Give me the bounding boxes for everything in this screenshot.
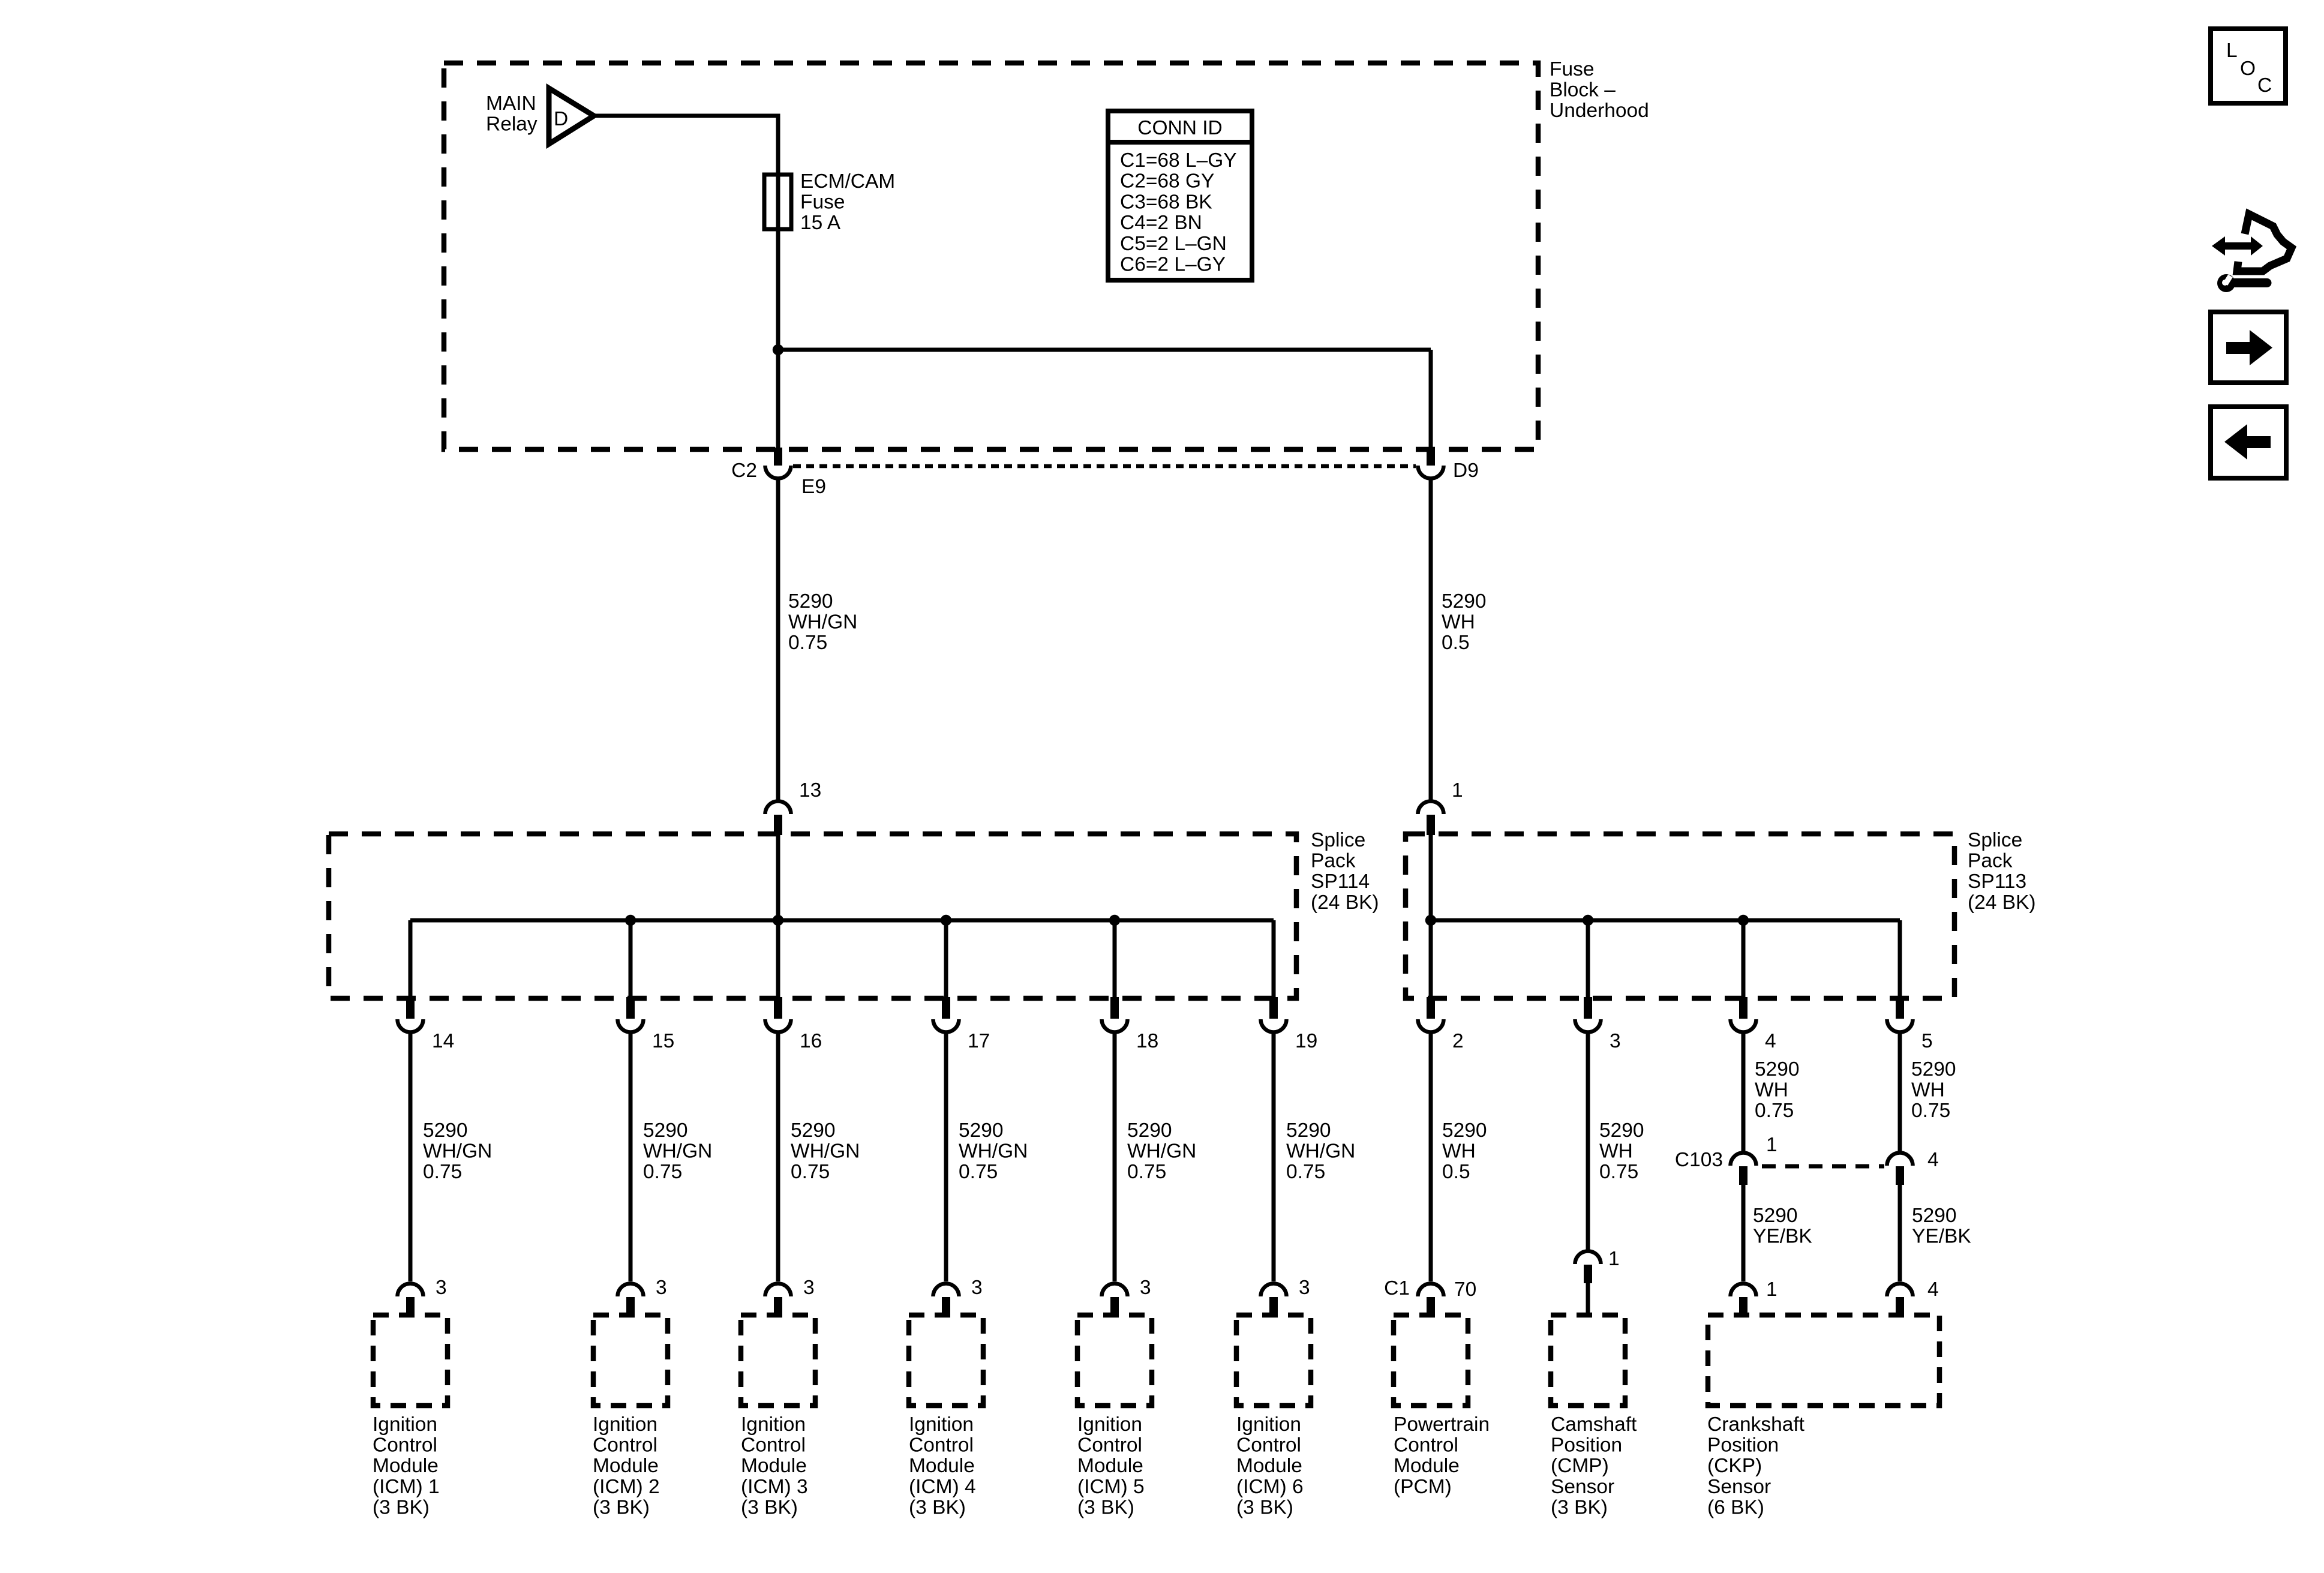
svg-text:Powertrain: Powertrain bbox=[1394, 1413, 1490, 1436]
svg-text:Module: Module bbox=[1394, 1455, 1460, 1477]
svg-text:1: 1 bbox=[1766, 1134, 1777, 1156]
svg-text:WH: WH bbox=[1599, 1140, 1633, 1163]
svg-text:2: 2 bbox=[1452, 1030, 1464, 1052]
svg-text:Module: Module bbox=[593, 1455, 659, 1477]
svg-text:1: 1 bbox=[1608, 1248, 1620, 1270]
svg-text:WH/GN: WH/GN bbox=[959, 1140, 1028, 1163]
svg-text:(ICM) 3: (ICM) 3 bbox=[741, 1476, 808, 1498]
svg-text:Crankshaft: Crankshaft bbox=[1707, 1413, 1805, 1436]
svg-text:(3 BK): (3 BK) bbox=[1077, 1496, 1134, 1518]
svg-text:16: 16 bbox=[800, 1030, 822, 1052]
svg-text:Splice: Splice bbox=[1311, 829, 1365, 851]
svg-text:(24 BK): (24 BK) bbox=[1968, 891, 2036, 914]
svg-text:5290: 5290 bbox=[791, 1119, 836, 1142]
svg-text:Position: Position bbox=[1551, 1434, 1622, 1457]
svg-text:13: 13 bbox=[799, 779, 821, 801]
svg-text:(ICM) 6: (ICM) 6 bbox=[1236, 1476, 1304, 1498]
svg-text:Fuse: Fuse bbox=[800, 191, 845, 214]
svg-text:(3 BK): (3 BK) bbox=[909, 1496, 966, 1518]
svg-text:WH/GN: WH/GN bbox=[1286, 1140, 1355, 1163]
svg-text:Control: Control bbox=[373, 1434, 437, 1457]
svg-text:3: 3 bbox=[803, 1277, 815, 1299]
svg-text:3: 3 bbox=[1140, 1277, 1151, 1299]
svg-text:5290: 5290 bbox=[643, 1119, 688, 1142]
svg-text:5290: 5290 bbox=[1753, 1205, 1798, 1227]
svg-text:(CKP): (CKP) bbox=[1707, 1455, 1762, 1477]
svg-text:14: 14 bbox=[432, 1030, 454, 1052]
svg-text:15: 15 bbox=[652, 1030, 674, 1052]
svg-text:L: L bbox=[2226, 40, 2238, 62]
svg-text:Relay: Relay bbox=[486, 113, 538, 136]
svg-text:(3 BK): (3 BK) bbox=[741, 1496, 798, 1518]
svg-text:5290: 5290 bbox=[423, 1119, 468, 1142]
svg-text:Underhood: Underhood bbox=[1550, 100, 1649, 122]
svg-text:C5=2 L–GN: C5=2 L–GN bbox=[1120, 233, 1227, 255]
svg-text:5290: 5290 bbox=[1599, 1119, 1644, 1142]
svg-text:SP114: SP114 bbox=[1311, 870, 1370, 893]
svg-text:(ICM) 4: (ICM) 4 bbox=[909, 1476, 976, 1498]
svg-text:0.75: 0.75 bbox=[1599, 1161, 1638, 1183]
svg-text:C3=68 BK: C3=68 BK bbox=[1120, 191, 1212, 213]
svg-text:Module: Module bbox=[741, 1455, 807, 1477]
svg-text:C103: C103 bbox=[1675, 1149, 1723, 1171]
svg-text:5290: 5290 bbox=[1127, 1119, 1172, 1142]
svg-text:ECM/CAM: ECM/CAM bbox=[800, 170, 895, 193]
svg-text:4: 4 bbox=[1927, 1149, 1939, 1171]
svg-text:0.75: 0.75 bbox=[791, 1161, 830, 1183]
svg-text:WH: WH bbox=[1442, 611, 1475, 634]
svg-text:Control: Control bbox=[1236, 1434, 1301, 1457]
svg-text:3: 3 bbox=[436, 1277, 447, 1299]
svg-text:5: 5 bbox=[1921, 1030, 1933, 1052]
svg-text:C2=68 GY: C2=68 GY bbox=[1120, 170, 1214, 193]
svg-text:3: 3 bbox=[1299, 1277, 1310, 1299]
svg-text:5290: 5290 bbox=[1442, 1119, 1487, 1142]
svg-text:(3 BK): (3 BK) bbox=[1236, 1496, 1293, 1518]
svg-text:(ICM) 5: (ICM) 5 bbox=[1077, 1476, 1145, 1498]
svg-text:(PCM): (PCM) bbox=[1394, 1476, 1452, 1498]
svg-text:MAIN: MAIN bbox=[486, 92, 536, 115]
svg-text:(3 BK): (3 BK) bbox=[1551, 1496, 1608, 1518]
svg-text:SP113: SP113 bbox=[1968, 870, 2026, 893]
svg-text:Sensor: Sensor bbox=[1707, 1476, 1771, 1498]
svg-text:WH/GN: WH/GN bbox=[791, 1140, 860, 1163]
svg-text:D9: D9 bbox=[1453, 460, 1479, 482]
svg-text:17: 17 bbox=[968, 1030, 990, 1052]
svg-text:Fuse: Fuse bbox=[1550, 58, 1594, 80]
svg-text:3: 3 bbox=[1610, 1030, 1621, 1052]
svg-text:19: 19 bbox=[1295, 1030, 1317, 1052]
svg-text:0.75: 0.75 bbox=[1127, 1161, 1166, 1183]
svg-text:WH: WH bbox=[1442, 1140, 1476, 1163]
svg-text:Ignition: Ignition bbox=[741, 1413, 806, 1436]
svg-text:5290: 5290 bbox=[1286, 1119, 1331, 1142]
svg-text:Pack: Pack bbox=[1968, 850, 2013, 872]
svg-text:(3 BK): (3 BK) bbox=[593, 1496, 650, 1518]
svg-text:WH/GN: WH/GN bbox=[643, 1140, 712, 1163]
svg-text:Control: Control bbox=[909, 1434, 974, 1457]
svg-text:C1: C1 bbox=[1384, 1277, 1410, 1299]
svg-text:Module: Module bbox=[909, 1455, 975, 1477]
svg-text:3: 3 bbox=[656, 1277, 667, 1299]
svg-text:YE/BK: YE/BK bbox=[1912, 1226, 1971, 1248]
svg-text:Control: Control bbox=[741, 1434, 806, 1457]
svg-text:(CMP): (CMP) bbox=[1551, 1455, 1609, 1477]
svg-text:WH/GN: WH/GN bbox=[423, 1140, 492, 1163]
svg-text:(6 BK): (6 BK) bbox=[1707, 1496, 1764, 1518]
svg-text:0.75: 0.75 bbox=[1911, 1100, 1950, 1122]
svg-text:Control: Control bbox=[593, 1434, 657, 1457]
svg-text:(ICM) 1: (ICM) 1 bbox=[373, 1476, 440, 1498]
svg-text:WH: WH bbox=[1755, 1079, 1788, 1101]
svg-text:5290: 5290 bbox=[959, 1119, 1004, 1142]
svg-text:Ignition: Ignition bbox=[909, 1413, 974, 1436]
svg-text:3: 3 bbox=[971, 1277, 983, 1299]
svg-text:WH/GN: WH/GN bbox=[788, 611, 857, 634]
svg-text:0.5: 0.5 bbox=[1442, 632, 1470, 654]
svg-text:C4=2 BN: C4=2 BN bbox=[1120, 212, 1202, 234]
svg-text:5290: 5290 bbox=[1755, 1058, 1800, 1080]
svg-text:Control: Control bbox=[1077, 1434, 1142, 1457]
svg-text:C1=68 L–GY: C1=68 L–GY bbox=[1120, 149, 1237, 172]
svg-text:Module: Module bbox=[1077, 1455, 1143, 1477]
svg-text:Module: Module bbox=[373, 1455, 439, 1477]
svg-text:Sensor: Sensor bbox=[1551, 1476, 1614, 1498]
svg-text:0.75: 0.75 bbox=[643, 1161, 682, 1183]
svg-text:Position: Position bbox=[1707, 1434, 1779, 1457]
svg-text:C6=2 L–GY: C6=2 L–GY bbox=[1120, 254, 1226, 276]
svg-text:Ignition: Ignition bbox=[1077, 1413, 1142, 1436]
svg-text:4: 4 bbox=[1927, 1278, 1939, 1301]
svg-text:D: D bbox=[554, 108, 568, 130]
svg-text:WH: WH bbox=[1911, 1079, 1945, 1101]
svg-text:Splice: Splice bbox=[1968, 829, 2022, 851]
svg-text:Block –: Block – bbox=[1550, 79, 1616, 101]
svg-text:C2: C2 bbox=[731, 460, 757, 482]
svg-text:70: 70 bbox=[1454, 1278, 1476, 1301]
svg-text:WH/GN: WH/GN bbox=[1127, 1140, 1196, 1163]
svg-text:0.5: 0.5 bbox=[1442, 1161, 1470, 1183]
svg-text:0.75: 0.75 bbox=[1286, 1161, 1325, 1183]
svg-text:0.75: 0.75 bbox=[959, 1161, 998, 1183]
svg-text:E9: E9 bbox=[801, 476, 826, 498]
svg-text:(3 BK): (3 BK) bbox=[373, 1496, 430, 1518]
svg-text:Ignition: Ignition bbox=[593, 1413, 657, 1436]
svg-text:0.75: 0.75 bbox=[423, 1161, 462, 1183]
svg-text:1: 1 bbox=[1766, 1278, 1777, 1301]
svg-text:Module: Module bbox=[1236, 1455, 1302, 1477]
svg-text:Ignition: Ignition bbox=[373, 1413, 437, 1436]
svg-text:YE/BK: YE/BK bbox=[1753, 1226, 1812, 1248]
svg-text:(24 BK): (24 BK) bbox=[1311, 891, 1379, 914]
svg-text:CONN ID: CONN ID bbox=[1137, 117, 1222, 139]
svg-text:C: C bbox=[2257, 74, 2272, 97]
svg-text:5290: 5290 bbox=[1442, 590, 1487, 613]
svg-text:Camshaft: Camshaft bbox=[1551, 1413, 1637, 1436]
svg-text:O: O bbox=[2240, 58, 2256, 80]
svg-text:4: 4 bbox=[1765, 1030, 1776, 1052]
svg-text:5290: 5290 bbox=[1911, 1058, 1956, 1080]
svg-text:(ICM) 2: (ICM) 2 bbox=[593, 1476, 660, 1498]
svg-text:Pack: Pack bbox=[1311, 850, 1356, 872]
svg-text:0.75: 0.75 bbox=[1755, 1100, 1794, 1122]
svg-text:5290: 5290 bbox=[1912, 1205, 1957, 1227]
svg-text:Control: Control bbox=[1394, 1434, 1458, 1457]
svg-text:Ignition: Ignition bbox=[1236, 1413, 1301, 1436]
svg-text:1: 1 bbox=[1452, 779, 1463, 801]
svg-text:5290: 5290 bbox=[788, 590, 833, 613]
svg-text:15 A: 15 A bbox=[800, 212, 841, 234]
svg-text:18: 18 bbox=[1136, 1030, 1158, 1052]
svg-text:0.75: 0.75 bbox=[788, 632, 827, 654]
